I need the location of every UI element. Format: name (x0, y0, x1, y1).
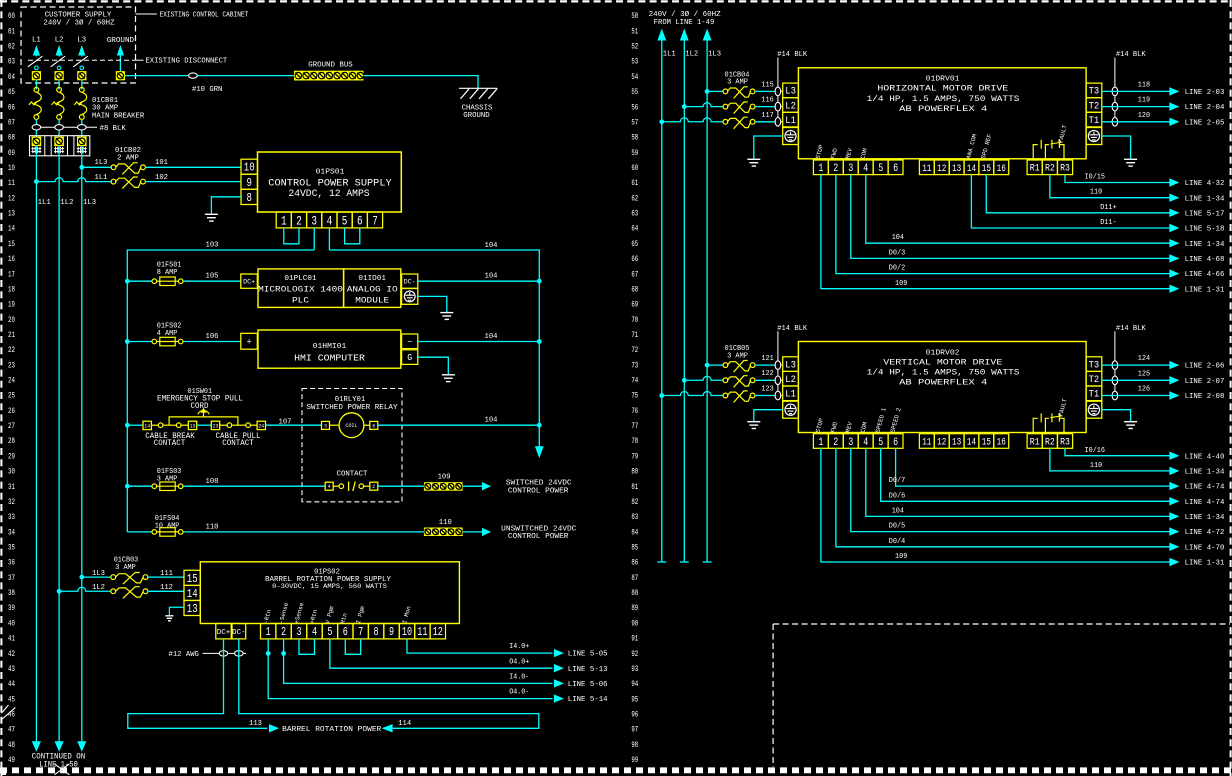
terminal 9 (PS02 bottom) (384, 624, 399, 639)
ground arrow stem wire (119, 54, 121, 72)
svg-text:L3: L3 (785, 86, 796, 97)
svg-text:30 AMP: 30 AMP (92, 105, 119, 113)
svg-text:240V / 3Ø / 60HZ: 240V / 3Ø / 60HZ (649, 10, 721, 19)
svg-text:119: 119 (1138, 97, 1150, 105)
svg-text:30: 30 (8, 468, 15, 477)
svg-text:CONTACT: CONTACT (337, 471, 368, 479)
svg-text:73: 73 (631, 361, 638, 370)
fault contact R2 riser (01DRV01) (1045, 145, 1049, 160)
arrow LINE 5-05 (554, 649, 564, 657)
svg-text:AB POWERFLEX 4: AB POWERFLEX 4 (899, 105, 987, 114)
svg-text:CONTROL POWER: CONTROL POWER (508, 487, 569, 495)
terminal 12 bottom (01DRV02) (934, 434, 949, 449)
wire D0/5 from terminal to LINE 4-72 (851, 448, 1171, 531)
terminal strip outline (30, 136, 90, 156)
disconnect blade (73, 56, 88, 67)
earth symbol (PLC) (404, 291, 415, 302)
svg-text:110: 110 (439, 519, 452, 527)
wire D0/2 from terminal to LINE 4-66 (836, 175, 1170, 274)
terminal 7 (PS01 bottom) (367, 212, 382, 228)
bottom-right dashed box left edge (772, 624, 774, 767)
arrow LINE 4-74 row 82 (1169, 497, 1179, 505)
wire 1L2 to breaker 01CB03b with hop (59, 587, 111, 591)
junction 1L2 / wire 122 (682, 378, 687, 383)
junction 1L3 / wire 101 (79, 165, 84, 170)
coil terminal 6 (370, 421, 378, 429)
svg-text:D0/2: D0/2 (889, 265, 905, 273)
svg-text:O4.0-: O4.0- (509, 689, 529, 697)
terminal T3 (01DRV01) (1086, 83, 1102, 98)
blade pivot circle (57, 66, 61, 70)
svg-text:6: 6 (893, 163, 898, 175)
svg-text:104: 104 (485, 242, 499, 250)
svg-text:11: 11 (8, 179, 15, 188)
e-stop contact circle 2a (227, 423, 232, 428)
svg-text:101: 101 (155, 159, 169, 167)
terminal DC- (PLC) (402, 274, 418, 288)
svg-text:08: 08 (8, 134, 15, 143)
svg-text:SWITCHED POWER RELAY: SWITCHED POWER RELAY (307, 404, 399, 412)
breaker 01CB05 pole 3 (723, 391, 755, 403)
supply terminal square x=59.1 (55, 71, 64, 80)
chassis ground top line (459, 87, 497, 89)
terminal R2 (01DRV02) (1042, 434, 1057, 449)
svg-text:51: 51 (631, 27, 638, 36)
svg-text:110: 110 (1090, 462, 1102, 470)
terminal T3 (01DRV02) (1086, 357, 1102, 372)
svg-text:109: 109 (895, 553, 907, 561)
wire 102 to PS01 terminal 9 (145, 181, 241, 183)
wire earth right to ground (01DRV02) (1102, 410, 1131, 422)
svg-text:79: 79 (631, 452, 638, 461)
earth symbol right (01DRV02) (1088, 404, 1099, 415)
svg-text:I4.0+: I4.0+ (509, 643, 529, 651)
wire gauge marker #14 BLK (right) (1112, 361, 1118, 370)
svg-text:LINE 5-05: LINE 5-05 (568, 651, 608, 659)
terminal 12 (PS02 bottom) (430, 624, 445, 639)
svg-text:LINE 1-31: LINE 1-31 (1185, 560, 1225, 568)
svg-text:1L3: 1L3 (92, 570, 105, 578)
e-stop release arrow head (200, 408, 206, 413)
svg-text:54: 54 (631, 73, 638, 82)
junction 1L1 / wire 102 (34, 179, 39, 184)
svg-text:120: 120 (1138, 112, 1150, 120)
bus 1L1 continuation arrow down (32, 741, 41, 752)
svg-text:EXISTING DISCONNECT: EXISTING DISCONNECT (146, 58, 228, 66)
svg-text:81: 81 (631, 483, 638, 492)
terminal strip divider (50, 136, 52, 156)
svg-text:10: 10 (244, 161, 255, 175)
svg-text:L1: L1 (32, 37, 41, 45)
bottom-right dashed box top edge (773, 623, 1230, 625)
bus 1L3 end terminator (703, 561, 712, 563)
terminal T2 (01DRV01) (1086, 98, 1102, 113)
svg-text:GROUND: GROUND (463, 112, 490, 120)
svg-text:LINE 5-06: LINE 5-06 (568, 681, 608, 689)
terminal 7 (PS02 bottom) (353, 624, 368, 639)
wire 115 to L3 (755, 90, 783, 92)
dot on terminal 1 wire (266, 651, 271, 656)
svg-text:1/4 HP, 1.5 AMPS, 750 WATTS: 1/4 HP, 1.5 AMPS, 750 WATTS (867, 368, 1020, 377)
svg-text:87: 87 (631, 574, 638, 583)
svg-text:1L2: 1L2 (685, 51, 698, 59)
svg-text:AB POWERFLEX 4: AB POWERFLEX 4 (899, 379, 987, 388)
leader #8 BLK (33, 126, 97, 128)
wire gauge marker #14 BLK (left) (775, 102, 781, 111)
contact bar 2 (353, 482, 356, 492)
svg-text:24: 24 (259, 422, 265, 429)
svg-text:2: 2 (296, 213, 302, 228)
svg-text:ANALOG IO: ANALOG IO (347, 284, 398, 294)
svg-text:I0/16: I0/16 (1085, 447, 1106, 455)
leader to EXISTING DISCONNECT (136, 59, 144, 61)
svg-text:2: 2 (372, 483, 375, 490)
wire 119 to LINE 2-04 (1102, 106, 1171, 108)
svg-text:00: 00 (8, 12, 15, 21)
page border bottom (dashed) (0, 767, 1232, 773)
arrow LINE 1-31 row 86 (1169, 558, 1179, 566)
svg-text:109: 109 (895, 280, 907, 288)
wire into breaker (35, 80, 37, 89)
supply terminal square x=81.8 (77, 71, 86, 80)
svg-text:27: 27 (8, 422, 15, 431)
fault contact R1 riser (01DRV01) (1033, 145, 1038, 160)
svg-text:123: 123 (761, 386, 773, 394)
svg-text:45: 45 (8, 695, 15, 704)
wire gauge marker #14 BLK (left) (775, 376, 781, 385)
fuse 01FS03 (152, 482, 183, 491)
relay coil 01RLY01 (339, 413, 364, 438)
svg-text:1: 1 (818, 163, 823, 175)
terminal 6 bottom (01DRV01) (888, 160, 903, 175)
ground symbol left (01DRV02) (747, 421, 760, 423)
svg-text:22: 22 (8, 346, 15, 355)
arrow up bus 1L1 (right) (657, 29, 666, 41)
wire PS02 t2 to LINE 5-06 (284, 639, 553, 684)
wire 124 to LINE 2-06 (1102, 364, 1171, 366)
terminal 8 (PS01) (241, 189, 258, 204)
terminal 2 bottom (01DRV02) (828, 434, 843, 449)
svg-text:115: 115 (761, 81, 773, 89)
chassis ground hatch stroke (470, 88, 479, 99)
terminal 13 bottom (01DRV02) (949, 434, 964, 449)
svg-text:78: 78 (631, 437, 638, 446)
svg-text:#10 GRN: #10 GRN (192, 86, 222, 94)
svg-text:240V / 3Ø / 60HZ: 240V / 3Ø / 60HZ (43, 18, 115, 27)
terminal 9 (PS01) (241, 174, 258, 189)
svg-text:47: 47 (8, 726, 15, 735)
svg-text:02: 02 (8, 43, 15, 52)
bus 1L1 end terminator (657, 561, 666, 563)
svg-text:I0/15: I0/15 (1085, 174, 1106, 182)
wire earth left to ground (01DRV02) (754, 410, 783, 422)
wire 1L2 to 01CB05b with hop (684, 376, 723, 380)
svg-text:29: 29 (8, 452, 15, 461)
svg-text:31: 31 (8, 483, 15, 492)
svg-text:CONTROL POWER: CONTROL POWER (508, 533, 569, 541)
coil terminal 3 (322, 421, 330, 429)
svg-text:PLC: PLC (292, 295, 309, 305)
breaker 01CB03 pole 1 (111, 573, 148, 585)
page border top (dashed) (0, 0, 1232, 2)
svg-text:CONTACT: CONTACT (154, 439, 186, 448)
wire 117 to L1 (755, 121, 783, 123)
svg-text:64: 64 (631, 225, 638, 234)
terminal hatch (77, 147, 87, 149)
terminal L3 (01DRV02) (783, 357, 799, 372)
wire PS02 terminal 13 to ground (169, 607, 184, 615)
terminal PE right (01DRV01) (1086, 128, 1102, 145)
svg-text:5: 5 (878, 163, 883, 175)
wire PS01 terminal 4 down (328, 228, 330, 250)
wire 1L3 to breaker 01CB02a (82, 166, 111, 168)
svg-text:15: 15 (8, 240, 15, 249)
supply terminal square x=120.4 (116, 71, 125, 80)
contact terminal 2 (370, 482, 378, 490)
junction 104 bus / coil (537, 423, 542, 428)
fault contact NC bar (01DRV01) (1050, 142, 1062, 144)
terminal 14 (PS02) (184, 585, 200, 600)
bus 1L3 continuation arrow down (77, 741, 86, 752)
svg-text:96: 96 (631, 711, 638, 720)
svg-text:13: 13 (952, 163, 961, 175)
svg-text:33: 33 (8, 513, 15, 522)
terminal L1 (01DRV02) (783, 386, 799, 401)
e-stop arrow left curl (198, 411, 202, 415)
svg-text:10: 10 (8, 164, 15, 173)
svg-text:D0/7: D0/7 (889, 477, 905, 485)
svg-text:44: 44 (8, 680, 15, 689)
svg-text:8: 8 (374, 625, 379, 639)
svg-text:13: 13 (190, 422, 196, 429)
wire ground bus to chassis ground (364, 76, 479, 88)
svg-text:MAIN BREAKER: MAIN BREAKER (92, 113, 145, 121)
wire 109 to marker (378, 485, 424, 487)
terminal R3 (01DRV01) (1057, 160, 1072, 175)
border break mark stroke 2 (2, 705, 9, 713)
terminal 4 bottom (01DRV02) (858, 434, 873, 449)
wire 1L2 to 01CB04b with hop (684, 103, 723, 107)
svg-text:3 AMP: 3 AMP (157, 476, 178, 484)
terminal 5 bottom (01DRV02) (873, 434, 888, 449)
wire 1L1 to 01CB05c with hops (662, 392, 723, 396)
ground symbol (PLC earth) (440, 312, 453, 314)
terminal 15 (PS02) (184, 570, 200, 585)
PLC 01PLC01 box (258, 269, 344, 308)
wire gauge marker #8 BLK (55, 125, 64, 130)
wire PS02 t10 to LINE 5-05 (407, 639, 553, 653)
arrow LINE 5-13 (554, 664, 564, 672)
contact bar 1 (348, 482, 350, 492)
svg-text:L1: L1 (785, 115, 796, 126)
terminal 4 bottom (01DRV01) (858, 160, 873, 175)
bus wire 1L1 (right) (661, 41, 663, 563)
svg-text:67: 67 (631, 270, 638, 279)
terminal 5 (PS02 bottom) (322, 624, 337, 639)
wire 1L3 to 01CB05a (707, 364, 723, 366)
svg-text:38: 38 (8, 589, 15, 598)
svg-text:LINE 5-14: LINE 5-14 (568, 696, 608, 704)
jumper PS02 t3-t4 (299, 639, 315, 654)
svg-text:16: 16 (8, 255, 15, 264)
wire to fuse 01FS03 (127, 485, 151, 487)
svg-text:R2: R2 (1045, 436, 1055, 447)
breaker 01CB03 pole 2 (111, 587, 148, 599)
svg-text:10 AMP: 10 AMP (155, 523, 180, 531)
terminal R1 (01DRV02) (1027, 434, 1042, 449)
svg-text:77: 77 (631, 422, 638, 431)
svg-text:74: 74 (631, 377, 638, 386)
terminal DC+ (PLC) (241, 274, 257, 288)
svg-text:93: 93 (631, 665, 638, 674)
svg-text:DC+: DC+ (217, 629, 231, 637)
svg-text:58: 58 (631, 134, 638, 143)
svg-text:LINE 2-07: LINE 2-07 (1185, 378, 1225, 386)
svg-text:D0/3: D0/3 (889, 249, 905, 257)
svg-text:3: 3 (311, 213, 317, 228)
fault contact R3 riser (01DRV02) (1060, 418, 1065, 433)
arrow LINE 4-68 row 66 (1169, 254, 1179, 262)
terminal DC- (PS02) (232, 624, 246, 639)
svg-text:104: 104 (485, 272, 499, 280)
svg-text:01IO01: 01IO01 (358, 275, 386, 283)
svg-text:105: 105 (206, 272, 219, 280)
wire HMI G to ground (418, 357, 449, 374)
svg-text:5: 5 (342, 213, 348, 228)
svg-text:23: 23 (8, 361, 15, 370)
wire PS01 terminal 8 to ground (211, 197, 241, 215)
svg-text:118: 118 (1138, 82, 1150, 90)
terminal strip divider (44, 136, 46, 156)
terminal strip square x=59.1 (54, 137, 64, 147)
svg-text:24: 24 (8, 377, 15, 386)
terminal - (HMI) (402, 334, 418, 349)
svg-text:55: 55 (631, 88, 638, 97)
wire D0/3 from terminal to LINE 4-68 (851, 175, 1171, 259)
svg-text:84: 84 (631, 528, 638, 537)
svg-text:68: 68 (631, 285, 638, 294)
wire 110 to marker (184, 531, 424, 533)
terminal 15 bottom (01DRV02) (979, 434, 994, 449)
chassis ground hatch stroke (461, 88, 470, 99)
ground symbol (HMI G) (442, 374, 455, 376)
104 bus continuation arrow down (535, 446, 544, 458)
wire 101 to PS01 terminal 10 (145, 166, 241, 168)
svg-text:LINE 2-05: LINE 2-05 (1185, 119, 1225, 127)
wire to fuse 01FS01 (127, 280, 151, 282)
arrow LINE 4-70 row 85 (1169, 543, 1179, 551)
svg-text:104: 104 (892, 508, 904, 516)
terminal strip divider (67, 136, 69, 156)
svg-text:1L3: 1L3 (83, 199, 97, 207)
svg-text:71: 71 (631, 331, 638, 340)
svg-text:18: 18 (8, 285, 15, 294)
svg-text:CONTACT: CONTACT (222, 439, 254, 448)
terminal PE right (01DRV02) (1086, 401, 1102, 418)
svg-text:HMI COMPUTER: HMI COMPUTER (294, 353, 365, 364)
svg-text:52: 52 (631, 43, 638, 52)
svg-text:LINE 1-34: LINE 1-34 (1185, 469, 1225, 477)
wire into breaker (58, 80, 60, 89)
relay 01RLY01 dashed box (302, 389, 402, 502)
wire 112 to PS02 terminal 14 (148, 590, 184, 592)
svg-text:107: 107 (279, 418, 292, 426)
arrow LINE 4-66 row 67 (1169, 269, 1179, 277)
junction 1L2 / wire 112 (57, 589, 62, 594)
svg-text:L3: L3 (77, 37, 86, 45)
svg-text:05: 05 (8, 88, 15, 97)
arrow LINE 2-07 (1169, 376, 1179, 384)
svg-text:7: 7 (358, 625, 363, 639)
svg-text:4: 4 (863, 437, 868, 449)
wire 110 from terminal to LINE 1-34 (1050, 448, 1170, 471)
svg-text:FROM LINE 1-49: FROM LINE 1-49 (654, 19, 715, 27)
e-stop contact circle 1b (176, 423, 181, 428)
terminal 6 (PS02 bottom) (338, 624, 353, 639)
wire 120 to LINE 2-05 (1102, 121, 1171, 123)
svg-text:T3: T3 (1089, 86, 1100, 97)
svg-text:116: 116 (761, 97, 773, 105)
junction 1L1 / wire 123 (659, 393, 664, 398)
svg-text:LINE 5-17: LINE 5-17 (1185, 210, 1225, 218)
wire 118 to LINE 2-03 (1102, 90, 1171, 92)
wire out of breaker (81, 119, 83, 137)
svg-text:1: 1 (818, 437, 823, 449)
wire gauge marker #10 GRN (189, 73, 198, 78)
svg-text:11: 11 (417, 625, 427, 639)
svg-text:0-30VDC, 15 AMPS, 560 WATTS: 0-30VDC, 15 AMPS, 560 WATTS (272, 583, 387, 591)
arrow switched 24VDC (482, 482, 491, 490)
svg-text:D11-: D11- (1100, 219, 1116, 227)
svg-text:11: 11 (922, 437, 931, 449)
svg-text:56: 56 (631, 103, 638, 112)
svg-text:1/4 HP, 1.5 AMPS, 750 WATTS: 1/4 HP, 1.5 AMPS, 750 WATTS (867, 95, 1020, 104)
leader #14 BLK (left) (777, 58, 779, 122)
svg-text:L3: L3 (785, 359, 796, 370)
fault contact R1 riser (01DRV02) (1033, 418, 1038, 433)
e-stop terminal 23 (211, 421, 219, 429)
svg-text:L2: L2 (785, 100, 796, 111)
terminal L2 (01DRV01) (783, 98, 799, 113)
fuse 01FS01 (152, 277, 183, 286)
dot on terminal 2 wire (281, 651, 286, 656)
svg-text:15: 15 (982, 437, 991, 449)
svg-text:122: 122 (761, 370, 773, 378)
wire 123 to L1 (755, 395, 783, 397)
svg-text:108: 108 (206, 478, 219, 486)
wire PLC DC- to 104 bus (418, 280, 540, 282)
svg-text:3: 3 (296, 625, 301, 639)
svg-text:13: 13 (187, 602, 198, 616)
motor drive 01DRV01 box (798, 68, 1086, 159)
svg-text:1L2: 1L2 (60, 199, 74, 207)
e-stop contact circle 2b (246, 423, 251, 428)
wire coil to 104 bus (378, 424, 540, 426)
svg-text:104: 104 (892, 234, 904, 242)
svg-text:99: 99 (631, 756, 638, 765)
terminal 5 bottom (01DRV01) (873, 160, 888, 175)
svg-text:16: 16 (997, 163, 1006, 175)
svg-text:121: 121 (761, 355, 773, 363)
fault contact R1 tick (01DRV02) (1040, 414, 1042, 423)
svg-text:LINE 5-18: LINE 5-18 (1185, 226, 1225, 234)
wire 111 to PS02 terminal 15 (148, 576, 184, 578)
wire D0/6 from terminal to LINE 4-74 (881, 448, 1171, 501)
breaker 01CB01 pole x=81.8 (74, 87, 86, 119)
svg-text:6: 6 (343, 625, 348, 639)
svg-text:4: 4 (327, 213, 333, 228)
svg-text:42: 42 (8, 650, 15, 659)
